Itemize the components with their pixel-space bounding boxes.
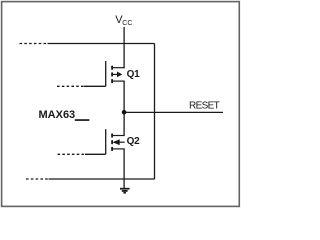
- svg-text:Q1: Q1: [127, 69, 140, 80]
- ground: [120, 189, 130, 193]
- wire Q2 source to ground: [123, 149, 125, 189]
- transistor Q2: [106, 129, 125, 154]
- wire right vertical rail: [154, 44, 156, 180]
- wire Q1 gate (dashed then solid): [57, 85, 106, 87]
- svg-text:CC: CC: [122, 20, 132, 27]
- wire Q2 gate (dashed then solid): [58, 153, 106, 155]
- svg-text:Q2: Q2: [127, 136, 140, 147]
- svg-text:MAX63: MAX63: [39, 109, 76, 121]
- net VCC label: [115, 14, 132, 27]
- transistor Q1: [106, 61, 125, 86]
- wire VCC lead to Q1 drain: [123, 27, 125, 68]
- wire bottom internal rail (dashed then solid): [26, 178, 155, 180]
- svg-text:RESET: RESET: [189, 101, 220, 112]
- wire RESET output: [124, 111, 223, 113]
- wire top internal rail (dashed then solid): [20, 43, 155, 45]
- node reset junction: [122, 110, 127, 115]
- wire Q1 source to Q2 drain: [123, 81, 125, 135]
